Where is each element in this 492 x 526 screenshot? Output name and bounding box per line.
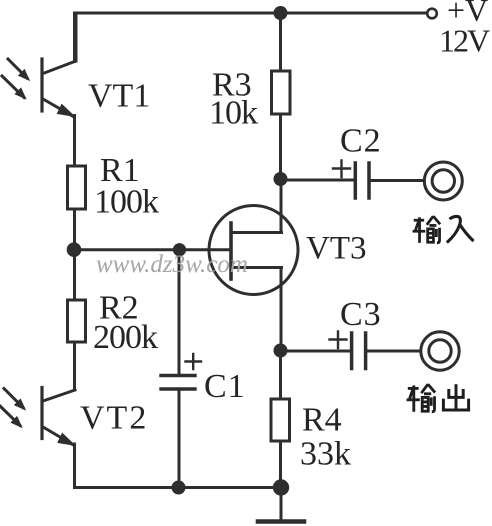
node: ground rail junction [273, 479, 289, 495]
resistor R4 [271, 399, 290, 441]
svg-text:C2: C2 [340, 123, 382, 160]
wire: VT2 emitter to bottom rail [73, 444, 76, 488]
输 [413, 216, 441, 243]
svg-text:VT3: VT3 [306, 231, 367, 267]
label: VT2 [80, 400, 148, 437]
wire: left drop from rail to VT1 collector [75, 13, 78, 61]
wire: R4 top [279, 351, 282, 399]
watermark www.dz3w.com [96, 251, 248, 278]
terminal: output jack (double circle) [421, 332, 459, 370]
FET VT3 [209, 206, 298, 295]
label: 10k [209, 95, 258, 132]
label: 12V [439, 23, 490, 59]
resistor R1 [68, 166, 86, 209]
label: VT3 [306, 231, 367, 267]
label: 输出 (output) [407, 384, 469, 412]
node: C1 bottom rail junction [172, 481, 186, 495]
label: R1 [100, 152, 140, 189]
svg-text:C1: C1 [204, 368, 246, 405]
label: R3 [212, 67, 252, 104]
wire: VT3 source to C3 node [280, 268, 283, 352]
wire: node B down to C1 [178, 250, 181, 375]
phototransistor VT1 [2, 13, 75, 116]
label: 100k [94, 184, 159, 221]
terminal: +V supply (open circle) [427, 9, 437, 19]
label: C2 [340, 123, 382, 160]
wire: top supply rail [76, 12, 427, 15]
node B: C1 tap junction [173, 243, 186, 256]
wire: bottom rail [75, 486, 282, 489]
svg-text:10k: 10k [209, 95, 258, 132]
label: C1 [204, 368, 246, 405]
wire: R1 to node A [73, 209, 76, 250]
label: R2 [99, 290, 139, 327]
label: 输入 (input) [413, 216, 474, 243]
resistor R2 [68, 300, 86, 342]
wire: R2 to VT2 collector [73, 342, 76, 390]
label: +V [447, 0, 488, 28]
svg-text:33k: 33k [300, 436, 351, 473]
node: C2 / drain junction [274, 172, 288, 186]
label: VT1 [88, 78, 150, 115]
wire: C1 to bottom rail [178, 389, 181, 488]
svg-text:www.dz3w.com: www.dz3w.com [96, 251, 248, 278]
wire: VT1 emitter to R1 [73, 116, 76, 167]
label: 200k [93, 319, 158, 356]
phototransistor VT2 [0, 388, 75, 446]
wire: C3 to output terminal [366, 350, 421, 353]
svg-text:C3: C3 [340, 296, 382, 333]
ground [258, 488, 304, 522]
svg-text:200k: 200k [93, 319, 158, 356]
svg-text:VT1: VT1 [88, 78, 150, 115]
node A: R1/R2/gate junction [67, 242, 82, 257]
输 [407, 384, 436, 412]
wire: C2 to input terminal [369, 179, 424, 182]
capacitor C2 [333, 161, 369, 199]
出 [443, 384, 468, 410]
wire: gate bus from node A to VT3 gate [75, 248, 232, 251]
capacitor C1 [161, 354, 201, 389]
wire: R3 to drain node [279, 114, 282, 179]
label: C3 [340, 296, 382, 333]
svg-text:100k: 100k [94, 184, 159, 221]
svg-text:VT2: VT2 [80, 400, 148, 437]
wire: R4 to bottom rail [279, 441, 282, 488]
label: R4 [302, 402, 342, 439]
terminal: input jack (double circle) [424, 162, 462, 200]
svg-text:R4: R4 [302, 402, 342, 439]
wire: top junction to R3 [279, 13, 282, 71]
wire: drain node to C2 [281, 179, 356, 182]
wire: node A to R2 [73, 250, 76, 300]
svg-text:12V: 12V [439, 23, 490, 59]
入 [447, 216, 474, 242]
wire: drain node into VT3 [280, 179, 283, 233]
node: top rail junction [274, 6, 288, 20]
wire: source node to C3 [281, 350, 351, 353]
label: 33k [300, 436, 351, 473]
resistor R3 [272, 71, 291, 114]
node: C3 / source junction [274, 344, 288, 358]
capacitor C3 [330, 332, 366, 369]
